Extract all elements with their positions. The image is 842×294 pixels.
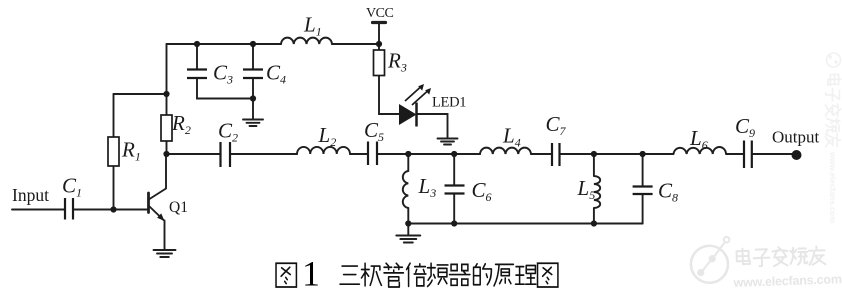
svg-text:R2: R2	[171, 111, 191, 137]
svg-text:C8: C8	[658, 179, 678, 205]
svg-text:C6: C6	[472, 178, 492, 204]
svg-text:R1: R1	[121, 138, 141, 164]
svg-text:L2: L2	[318, 123, 337, 149]
svg-text:L1: L1	[303, 13, 322, 39]
svg-text:L6: L6	[689, 126, 708, 152]
svg-text:L4: L4	[502, 124, 521, 150]
svg-text:C1: C1	[62, 174, 82, 200]
svg-text:1: 1	[302, 254, 320, 294]
svg-text:C3: C3	[213, 61, 233, 87]
svg-text:www.elecfans.com: www.elecfans.com	[732, 272, 842, 290]
svg-text:LED1: LED1	[432, 95, 466, 111]
svg-text:Output: Output	[772, 128, 820, 147]
svg-text:Input: Input	[12, 185, 49, 205]
svg-text:www.elecfans.com: www.elecfans.com	[828, 151, 837, 223]
svg-text:L5: L5	[577, 176, 596, 202]
svg-text:C5: C5	[364, 118, 384, 144]
svg-text:Q1: Q1	[169, 199, 188, 216]
svg-text:L3: L3	[418, 174, 437, 200]
svg-text:C4: C4	[266, 61, 286, 87]
svg-text:R3: R3	[387, 49, 407, 75]
svg-text:C9: C9	[735, 114, 755, 140]
svg-text:C2: C2	[218, 119, 238, 145]
svg-text:C7: C7	[546, 112, 567, 138]
svg-text:VCC: VCC	[366, 6, 393, 21]
